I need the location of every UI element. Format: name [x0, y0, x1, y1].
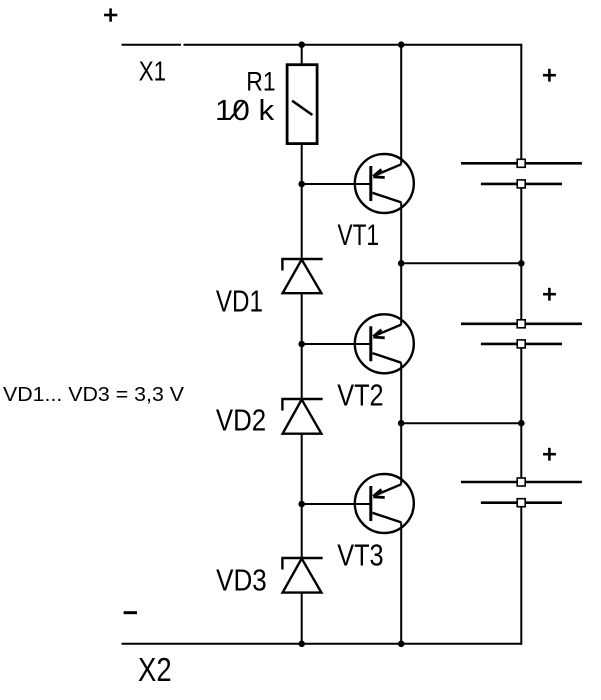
wire right vertical segment (GB3 to bottom rail)	[520, 503, 522, 645]
svg-text:R1: R1	[246, 67, 275, 97]
junction dot node A right	[518, 260, 525, 267]
wire bottom rail X2	[122, 643, 522, 645]
zener VD1 cathode hook	[281, 259, 283, 271]
svg-text:VT3: VT3	[337, 537, 383, 572]
wire node B to VT3 emitter	[400, 423, 402, 484]
wire VT2 collector to node B	[400, 363, 402, 424]
svg-text:VD2: VD2	[216, 402, 266, 437]
svg-text:VT2: VT2	[337, 377, 383, 412]
zener VD3 triangle	[283, 559, 322, 593]
transistor VT2	[355, 314, 414, 373]
junction dot top left	[298, 41, 305, 48]
minus mark X2 terminal	[124, 611, 137, 614]
svg-text:VT1: VT1	[338, 219, 380, 252]
transistor VT1	[355, 154, 414, 213]
svg-text:VD3: VD3	[216, 563, 267, 598]
junction dot VT1 base node	[298, 181, 305, 188]
plus mark battery GB1	[543, 69, 556, 82]
junction dot top middle	[398, 41, 405, 48]
wire right vertical segment (node B to battery GB3)	[520, 423, 522, 482]
wire VD1 to zener VD2	[301, 293, 303, 399]
svg-text:X2: X2	[138, 651, 172, 688]
svg-text:VD1... VD3 = 3,3 V: VD1... VD3 = 3,3 V	[3, 383, 184, 406]
wire right vertical segment top (rail to battery GB1)	[520, 44, 522, 164]
junction dot bottom middle	[398, 641, 405, 648]
svg-text:VD1: VD1	[216, 283, 263, 318]
wire right vertical segment (GB1 to node A)	[520, 184, 522, 263]
wire VT3 collector to bottom rail	[400, 522, 402, 643]
transistor VT3	[355, 474, 414, 533]
wire VT1 base	[302, 183, 371, 185]
resistor R1 diagonal mark	[292, 101, 312, 115]
junction dot node B right	[518, 420, 525, 427]
wire top rail main segment	[184, 44, 522, 46]
wire VT1 collector to node A	[400, 202, 402, 263]
plus mark X1 terminal	[104, 8, 117, 21]
wire node B horizontal tie	[401, 422, 521, 424]
zener VD1 cathode bar	[281, 258, 322, 260]
wire node A horizontal tie	[401, 262, 521, 264]
wire middle vertical rail to VT1 emitter	[400, 45, 402, 165]
junction dot bottom left chain	[298, 641, 305, 648]
wire VD3 to bottom rail	[301, 593, 303, 644]
junction dot VT3 base node	[298, 501, 305, 508]
plus mark battery GB3	[543, 448, 556, 461]
wire node A to VT2 emitter	[400, 263, 402, 324]
junction dot node A left	[398, 260, 405, 267]
wire VD2 to zener VD3	[301, 434, 303, 558]
junction dot VT2 base node	[298, 341, 305, 348]
battery GB3	[461, 478, 582, 507]
zener VD2 cathode hook	[281, 399, 283, 411]
wire right vertical segment (GB2 to node B)	[520, 344, 522, 423]
plus mark battery GB2	[543, 288, 556, 301]
zener VD2 cathode bar	[281, 398, 322, 400]
zener VD2 triangle	[283, 400, 322, 434]
junction dot node B left	[398, 420, 405, 427]
battery GB1	[461, 159, 582, 188]
wire VT2 base	[302, 343, 371, 345]
zener VD3 cathode hook	[281, 558, 283, 570]
zener VD3 cathode bar	[281, 557, 322, 559]
wire right vertical segment (node A to battery GB2)	[520, 263, 522, 324]
svg-text:10 k: 10 k	[215, 95, 275, 127]
wire top rail X1 segment left	[122, 44, 182, 46]
battery GB2	[461, 320, 582, 348]
svg-text:X1: X1	[139, 55, 166, 86]
resistor R1 body	[287, 65, 317, 144]
wire VT3 base	[302, 503, 371, 505]
label 10k slashed zero mark	[231, 101, 245, 119]
zener VD1 triangle	[283, 260, 322, 294]
wire left chain from top rail to R1	[301, 45, 303, 65]
wire R1 bottom to zener VD1	[301, 144, 303, 259]
